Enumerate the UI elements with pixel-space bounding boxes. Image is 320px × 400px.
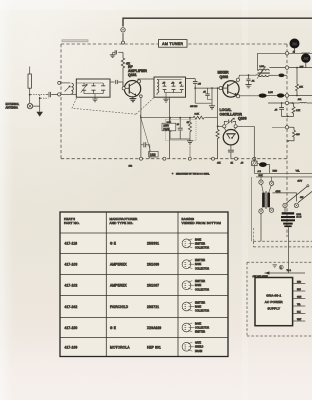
wire [170, 138, 190, 140]
junction [287, 116, 289, 118]
wire [84, 94, 103, 98]
wire [289, 102, 300, 104]
svg-text:GRN: GRN [276, 191, 281, 193]
terminal [285, 126, 288, 129]
basing diagram row 5 [182, 322, 209, 333]
ghost print artifact [62, 40, 88, 42]
svg-text:EMITTER: EMITTER [195, 302, 205, 304]
wire [270, 74, 278, 76]
table row 6 [65, 345, 162, 349]
terminal [163, 157, 166, 160]
wire [307, 102, 312, 104]
svg-text:GRA-98-1: GRA-98-1 [266, 293, 281, 297]
pointer line [140, 115, 151, 151]
svg-text:EMITTER: EMITTER [195, 243, 205, 245]
svg-text:AM: AM [303, 57, 308, 61]
svg-text:417-118: 417-118 [65, 242, 78, 246]
terminal: tuner input lugs on shield [58, 81, 61, 96]
wire [33, 95, 40, 106]
wire: AVC bus [141, 117, 218, 119]
svg-text:BLU: BLU [297, 289, 301, 291]
svg-text:SW: SW [300, 197, 303, 199]
svg-text:PEAK: PEAK [163, 128, 170, 131]
wire (RED lead) [254, 170, 312, 173]
terminal (lug 4) [269, 208, 273, 212]
basing diagram row 2 [182, 260, 209, 271]
terminal [253, 157, 256, 160]
wire [289, 52, 312, 54]
label [167, 122, 190, 126]
junction [189, 117, 191, 119]
wire [165, 93, 182, 98]
svg-text:COLLECTOR: COLLECTOR [195, 311, 209, 313]
shield box T2: 1st IF transformer [154, 77, 186, 97]
capacitor C101 [47, 92, 58, 97]
ground [273, 265, 278, 268]
terminal (numbered) [279, 265, 283, 269]
mechanical link (tuning gang, dashed) [72, 98, 154, 115]
terminal [285, 101, 288, 104]
terminal [285, 66, 288, 69]
junction [296, 95, 298, 97]
wire (collector to osc coil) [239, 75, 257, 78]
basing diagram row 3 [182, 281, 209, 292]
svg-text:417-103: 417-103 [65, 262, 78, 266]
svg-text:EMITTER: EMITTER [195, 281, 205, 283]
enclosure: AM tuner shield (dashed) [61, 44, 287, 237]
terminal: Q101 base [122, 87, 125, 90]
svg-text:COLLECTOR: COLLECTOR [195, 327, 209, 329]
wire: IF/AGC line at top [258, 52, 286, 54]
power supply unit GRA-98-1 [255, 278, 293, 326]
note: measurement footnote [172, 172, 210, 176]
wire (shielded lead to tuner input) [31, 95, 49, 99]
svg-text:2N1087: 2N1087 [147, 283, 159, 287]
capacitor C3 [101, 83, 105, 94]
capacitor C5 (input coupling) [110, 80, 123, 88]
terminal (lug 3) [259, 209, 263, 213]
wire [284, 95, 312, 97]
svg-text:455 KC: 455 KC [190, 106, 198, 108]
svg-text:417-102: 417-102 [65, 283, 78, 287]
resistor R108 [216, 118, 219, 159]
label box: value callout [162, 123, 176, 131]
terminal (module pin) [285, 52, 288, 55]
terminal [285, 94, 288, 97]
transistor Q102 [222, 81, 239, 97]
variable capacitor C1B (osc tuning) [224, 118, 235, 125]
capacitor C4 (neutralizing, to ground) [113, 50, 123, 54]
terminal (shield lug) [140, 157, 143, 160]
resistor R103 [168, 118, 171, 139]
svg-text:Q103: Q103 [238, 117, 247, 121]
svg-text:AND TYPE NO.: AND TYPE NO. [110, 221, 134, 225]
thermistor (hatched block) [252, 161, 257, 166]
label: RF AMPLIFIER Q101 [128, 65, 147, 77]
svg-text:417-150: 417-150 [65, 326, 78, 330]
wire (GRN lead to switch) [273, 191, 297, 202]
connector: ground jack (black) [300, 53, 311, 68]
svg-text:COLLECTOR: COLLECTOR [195, 289, 209, 291]
terminal: Q101 collector [137, 80, 140, 83]
resistor R101 [121, 52, 124, 71]
capacitor C10 [193, 82, 202, 104]
svg-text:MOTOROLA: MOTOROLA [110, 345, 130, 349]
wire (supply lead 3) [293, 297, 306, 299]
variable capacitor C1A [81, 83, 88, 94]
wire (supply lead 2) [293, 289, 306, 291]
svg-text:117V: 117V [298, 181, 303, 183]
svg-text:SHIELD: SHIELD [195, 347, 204, 349]
capacitor C8 [171, 83, 175, 93]
table: transistor basing chart [60, 212, 228, 357]
terminal: Q102 base [219, 87, 222, 90]
junction [169, 117, 171, 119]
svg-text:X29A829: X29A829 [147, 326, 161, 330]
resistor R109 [296, 68, 304, 96]
svg-text:3.3K: 3.3K [195, 114, 200, 116]
svg-text:Q102: Q102 [220, 75, 229, 79]
basing diagram row 1 [182, 238, 209, 249]
svg-text:G E: G E [110, 242, 116, 246]
junction [29, 94, 31, 96]
junction [194, 87, 196, 89]
antenna A1 (rod) [28, 67, 31, 104]
svg-text:2N3721: 2N3721 [147, 305, 159, 309]
basing diagram row 6 [182, 342, 204, 353]
terminal [188, 157, 191, 160]
table row 3: Q103 [65, 283, 160, 287]
svg-text:2N1089: 2N1089 [147, 262, 159, 266]
svg-text:AMPEREX: AMPEREX [110, 283, 128, 287]
inductor L104 (ferrite bead) [259, 94, 267, 98]
svg-text:417-242: 417-242 [65, 305, 78, 309]
resistor R110 [288, 103, 301, 116]
svg-text:BASE: BASE [195, 238, 202, 241]
label: AM TUNER [159, 40, 188, 48]
inductor L105 (ferrite bead) [277, 93, 284, 97]
wire [217, 88, 219, 118]
label: EXTERNAL ANTENNA [6, 102, 20, 109]
svg-text:Q101: Q101 [128, 73, 137, 77]
wire [218, 125, 223, 127]
label box: 162 [149, 151, 158, 157]
wire (to mixer base) [195, 87, 219, 89]
table row 4 [65, 305, 160, 309]
svg-text:FM: FM [292, 42, 297, 46]
svg-text:BASE: BASE [195, 322, 202, 325]
capacitor C7 [162, 83, 166, 93]
wire (to power supply, arrow) [265, 271, 306, 274]
junction [217, 87, 219, 89]
svg-text:GRN: GRN [297, 297, 302, 299]
svg-text:4.7K: 4.7K [296, 110, 301, 112]
svg-text:BASE: BASE [195, 305, 202, 308]
junction [140, 117, 142, 119]
svg-text:BASE: BASE [195, 263, 202, 266]
wire (supply lead 6) [293, 319, 306, 321]
svg-text:PART NO.: PART NO. [64, 221, 80, 225]
terminal (transformer lug 2) [269, 181, 273, 185]
svg-text:AMPEREX: AMPEREX [110, 262, 128, 266]
ground [110, 52, 116, 57]
capacitor C12 [203, 88, 212, 99]
svg-text:EXTERNAL: EXTERNAL [6, 102, 20, 106]
wire [272, 126, 285, 128]
wire [261, 177, 272, 181]
wire [267, 95, 277, 97]
transformer T3 (oscillator coil, slug tuned) [257, 66, 270, 78]
wire (AGC line vertical) [211, 88, 213, 105]
ground (Q101 emitter) [130, 97, 137, 102]
ground [36, 106, 43, 117]
wire [140, 98, 142, 159]
terminal: Q102 collector [236, 78, 239, 81]
inductor L106 (ferrite core) [278, 74, 284, 78]
capacitor C14 [178, 118, 183, 139]
svg-text:VIEWED FROM BOTTOM: VIEWED FROM BOTTOM [182, 221, 222, 225]
svg-text:SUPPLY: SUPPLY [267, 307, 280, 311]
junction [292, 102, 294, 104]
label: LOCAL OSCILLATOR Q103 [220, 108, 247, 120]
wire (supply lead 4) [293, 304, 306, 306]
ground (below T2) [163, 97, 168, 102]
terminal [235, 157, 238, 160]
wire (T2 out) [186, 79, 196, 82]
ground [187, 139, 193, 144]
wire: B+ feed along top [123, 18, 312, 42]
wire (supply lead 5) [293, 312, 306, 314]
ground [209, 105, 215, 109]
svg-text:ANTENNA: ANTENNA [6, 105, 19, 109]
resistor R111 [288, 127, 301, 141]
junction [296, 67, 298, 69]
wire (Q101 collector to T2) [138, 79, 154, 81]
svg-text:40-40: 40-40 [296, 217, 302, 219]
node [140, 95, 143, 98]
wire (BLK lead) [256, 175, 312, 177]
wire [253, 166, 255, 174]
wire (Q103 emitter) [230, 145, 232, 150]
svg-text:BLK: BLK [259, 175, 264, 177]
coil L101 (antenna coil, adjustable) [61, 83, 77, 94]
svg-text:COLLECTOR: COLLECTOR [195, 268, 209, 270]
wire [61, 82, 71, 84]
capacitor C6 [141, 142, 150, 159]
svg-text:MEASURED W I TH NO S I GNAL: MEASURED W I TH NO S I GNAL [176, 173, 210, 176]
wire (supply lead 1) [293, 282, 306, 284]
capacitor C201 (multi-section electrolytic) [281, 208, 302, 227]
table row 1: Q101 [65, 242, 160, 246]
capacitor C13 [246, 75, 255, 84]
enclosure divider (double dashed) [254, 228, 313, 247]
terminal: Q102 emitter [237, 95, 240, 98]
svg-text:AM TUNER: AM TUNER [162, 42, 183, 46]
wire [195, 102, 211, 104]
svg-text:YEL: YEL [297, 304, 301, 306]
shield box T1: RF tuned circuit [76, 79, 110, 97]
terminal [223, 125, 226, 128]
terminal [212, 157, 215, 160]
resistor R104 [188, 118, 191, 139]
pilot lamp PL1 (black) [257, 162, 270, 173]
svg-text:2N3391: 2N3391 [147, 242, 159, 246]
transformer T201 power (windings) [261, 184, 271, 209]
svg-text:HEP 801: HEP 801 [147, 345, 161, 349]
wire [253, 159, 255, 161]
wire [256, 53, 258, 75]
wire [260, 213, 262, 241]
ground [245, 85, 251, 88]
svg-text:FAIRCHILD: FAIRCHILD [110, 305, 129, 309]
junction [281, 102, 283, 104]
wire [189, 146, 191, 158]
junction [287, 140, 289, 142]
wire (osc coil secondary out) [269, 66, 285, 68]
wire (mixer emitter IF output) [240, 95, 259, 97]
terminal (transformer lug 1) [259, 180, 263, 184]
wire [122, 72, 124, 89]
junction [211, 87, 213, 89]
svg-text:162: 162 [150, 153, 156, 157]
svg-text:GATE: GATE [195, 342, 202, 345]
svg-text:A B: A B [258, 170, 262, 173]
svg-text:AC POWER: AC POWER [265, 300, 284, 304]
wire [287, 227, 289, 273]
svg-text:BASE: BASE [195, 284, 202, 287]
wire [253, 126, 255, 158]
svg-text:EMITTER: EMITTER [195, 332, 205, 334]
svg-text:RED: RED [297, 282, 302, 284]
trimmer capacitor C2 [91, 83, 95, 94]
wire [169, 97, 171, 159]
connector: AM antenna jack (black) [290, 39, 300, 54]
junction [179, 117, 181, 119]
wire [268, 102, 285, 104]
wire [285, 74, 288, 76]
svg-text:COLLECTOR: COLLECTOR [195, 248, 209, 250]
wire [289, 67, 312, 69]
junction [39, 97, 41, 99]
wire [237, 125, 254, 127]
inductor L107 [300, 101, 307, 104]
label [253, 270, 292, 278]
terminal [234, 125, 237, 128]
svg-text:G E: G E [110, 326, 116, 330]
wire [251, 177, 253, 241]
junction [217, 125, 219, 127]
label [217, 162, 244, 164]
capacitor C16 [228, 150, 234, 159]
switch S1 (on AC line) [283, 185, 312, 208]
connector J2 (phono jack) [121, 28, 125, 32]
svg-text:DRAIN: DRAIN [195, 350, 202, 353]
svg-text:417-169: 417-169 [65, 345, 78, 349]
basing diagram row 4 [182, 302, 209, 313]
label: MIXER Q102 [218, 71, 230, 79]
svg-text:RED: RED [273, 171, 278, 173]
enclosure: AC power supply (dashed) [247, 262, 312, 336]
svg-text:EMITTER: EMITTER [195, 260, 205, 262]
table header [64, 217, 221, 225]
capacitor C9 [179, 83, 183, 93]
capacitor C18 [275, 103, 288, 116]
transistor Q101 [123, 81, 141, 97]
coil L102 [157, 80, 182, 96]
enclosure: AVC filter (dotted) [166, 120, 197, 141]
table row 2: Q102 [65, 262, 160, 266]
transistor Q103 [223, 128, 238, 145]
terminal (B+ entry on shield) [122, 41, 125, 44]
connector J1 external antenna [27, 103, 32, 108]
table row 5 [65, 326, 162, 330]
ground [92, 97, 97, 102]
resistor R105 (in bus) [193, 116, 204, 119]
junction [248, 74, 250, 76]
